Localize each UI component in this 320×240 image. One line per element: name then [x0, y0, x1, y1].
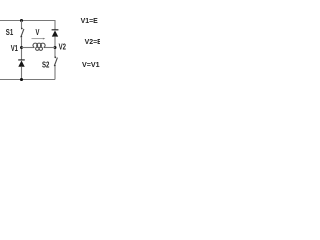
- wire left branch upper: [21, 21, 23, 29]
- wire bottom rail: [0, 79, 55, 81]
- wire top rail: [0, 20, 55, 22]
- inductor L turn 2: [37, 43, 42, 47]
- node junction right-middle: [54, 46, 57, 49]
- svg-text:V: V: [36, 28, 40, 37]
- diode D2 cathode bar: [52, 29, 59, 31]
- switch S1 blade: [21, 29, 24, 37]
- inductor L under-loop 2: [39, 47, 42, 50]
- switch S2 blade: [55, 58, 58, 66]
- svg-text:S2: S2: [42, 60, 50, 69]
- node junction bottom-left: [20, 78, 23, 81]
- arrow V reference (points right): [32, 38, 44, 40]
- diode D1 triangle: [18, 61, 24, 67]
- inductor L under-loop 1: [36, 47, 39, 50]
- wire right branch middle: [54, 37, 56, 57]
- inductor L turn 3: [41, 43, 46, 47]
- wire left branch lower: [21, 67, 23, 80]
- wire right branch upper: [54, 20, 56, 30]
- switch S2 contact top: [54, 56, 56, 58]
- diode D2 triangle: [52, 30, 58, 36]
- wire right branch lower: [54, 66, 56, 80]
- svg-text:V2=E: V2=E: [85, 37, 100, 46]
- svg-text:V=V1: V=V1: [82, 60, 100, 69]
- switch S1 contact top: [21, 28, 23, 30]
- wire middle branch left lead: [22, 47, 35, 49]
- wire middle branch right lead: [44, 47, 55, 49]
- svg-text:V2: V2: [59, 42, 67, 51]
- wire left branch middle: [21, 37, 23, 60]
- diode D1 cathode bar: [18, 59, 25, 61]
- node junction left-middle: [20, 46, 23, 49]
- svg-text:S1: S1: [6, 27, 14, 37]
- arrow V head: [43, 38, 45, 40]
- svg-text:V1: V1: [11, 44, 19, 53]
- node junction top-left: [20, 19, 23, 22]
- svg-text:V1=E: V1=E: [81, 16, 98, 25]
- switch S1 contact bottom: [20, 36, 22, 38]
- inductor L turn 1: [33, 43, 38, 47]
- switch S2 contact bottom: [54, 65, 56, 67]
